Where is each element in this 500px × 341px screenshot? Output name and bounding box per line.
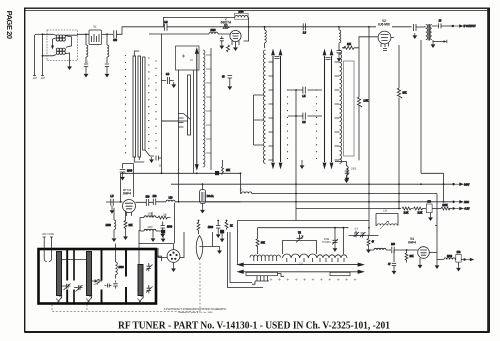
slider bar 2 (330, 272, 350, 275)
capacitor C1 (113, 30, 118, 42)
AGC box B1 (176, 46, 200, 70)
wafer bar S1c (143, 57, 145, 150)
grid coil L19 (370, 248, 391, 250)
svg-text:68: 68 (222, 77, 225, 79)
trimmer CT7 (354, 231, 360, 238)
svg-text:10K: 10K (129, 225, 134, 227)
wire bus continues (167, 17, 376, 41)
coil L15 feet (287, 258, 313, 262)
capacitor C25 (105, 284, 112, 288)
svg-text:10K: 10K (403, 93, 408, 95)
capacitor C8 at wafer bottom (156, 156, 161, 161)
svg-text:33K: 33K (261, 243, 266, 245)
coil L4 osc (339, 27, 341, 47)
svg-text:1000: 1000 (447, 256, 453, 258)
trimmer CT2 with ground (332, 237, 338, 246)
resistor R14 (405, 250, 414, 262)
resistor R12 33K (256, 239, 265, 254)
wafer contact dots col 1 (126, 56, 157, 160)
ground under C4 (337, 56, 342, 62)
transformer T1 winding top (56, 35, 65, 41)
capacitor C23 square with ground (161, 230, 166, 242)
capacitor C22 with ground (208, 221, 221, 233)
slug arrow 2b (330, 50, 333, 168)
wire x436 top link (435, 225, 437, 227)
coil L20 (444, 256, 455, 260)
socket X1 (167, 244, 180, 263)
svg-text:L18: L18 (383, 211, 388, 213)
choke L12 (140, 229, 161, 231)
svg-text:AMP: AMP (222, 26, 230, 30)
slider bar 1 (246, 272, 278, 275)
resistor R9 (156, 216, 171, 219)
resistor R11 at eye (197, 221, 200, 235)
center vertical x296 (295, 90, 297, 221)
svg-text:470: 470 (113, 40, 118, 42)
terminal +140V (453, 183, 470, 186)
wire V4 top (349, 235, 379, 237)
svg-text:100: 100 (391, 244, 396, 246)
ground under socket X1 (173, 262, 175, 266)
vertical line to AGC bus (161, 34, 163, 173)
grid coil L3 (162, 30, 230, 34)
ground arrow in T1 (51, 39, 54, 50)
tube V2 label (378, 19, 391, 26)
slug screw 2 (86, 296, 92, 303)
capacitor C16 470 box (426, 202, 441, 213)
wire T2 primary bottom long drop (420, 40, 422, 173)
coil L7 winding column (340, 50, 342, 163)
coil L8 with ground (335, 162, 348, 178)
coil form bar 1 (57, 252, 62, 296)
junction osc (338, 26, 340, 28)
coil L5 tap bus (206, 48, 211, 170)
coil L6 tap ticks (269, 62, 274, 160)
resistor R2 10K (342, 44, 359, 50)
capacitor C12 (303, 23, 307, 34)
svg-text:7H: 7H (298, 233, 301, 235)
svg-text:RF TUNER - PART No. V-14130-1: RF TUNER - PART No. V-14130-1 - USED IN … (118, 320, 390, 331)
wire V2 cathode drop (398, 45, 400, 88)
svg-text:3.3: 3.3 (302, 122, 306, 124)
junction dots buses (295, 183, 422, 228)
svg-text:47: 47 (388, 264, 391, 266)
capacitor C26 (113, 281, 117, 289)
svg-text:FINE: FINE (324, 239, 330, 241)
coil L2 plate choke (235, 11, 249, 19)
trimmer CT3 (62, 281, 71, 290)
coil L16 row (317, 255, 347, 258)
svg-text:6AF4: 6AF4 (123, 191, 131, 195)
resistor R7 2.2K (411, 207, 426, 214)
tube V2 pin stubs (381, 43, 389, 47)
coil L1b to ground leg (105, 34, 109, 71)
wire T1 connections (43, 34, 78, 64)
capacitor C20 at V3 grid (136, 196, 154, 206)
capacitor C2 in bus (164, 22, 168, 31)
capacitor C11 square (215, 171, 219, 175)
svg-text:100: 100 (146, 196, 151, 198)
svg-text:1000: 1000 (119, 267, 125, 269)
wire into box right (139, 230, 162, 265)
wire to output coil (437, 259, 444, 261)
svg-text:1000: 1000 (238, 11, 244, 13)
trimmer CT5 (146, 263, 153, 271)
svg-text:M1: M1 (93, 27, 97, 29)
contact dots col pair2 (316, 90, 318, 165)
resistor R5 15K (222, 160, 231, 174)
horizontal link y173 (121, 172, 241, 174)
tube V4 label (408, 237, 416, 244)
wire eye left feed (180, 232, 184, 258)
dashed stub 2 (86, 305, 88, 312)
svg-text:L9: L9 (240, 190, 243, 192)
coil form bar 3 (138, 265, 143, 296)
vertical link to A bus (120, 173, 122, 202)
svg-text:TUNING: TUNING (322, 242, 331, 244)
junction (343, 47, 345, 49)
vertical x437 drop (436, 194, 438, 264)
wafer bar S1b (138, 56, 141, 157)
partition wall 3 (125, 250, 127, 303)
wire bus C AGC (206, 201, 452, 203)
svg-text:PAGE 20: PAGE 20 (5, 11, 14, 39)
svg-text:10K: 10K (163, 215, 168, 217)
capacitor C28 with ground (388, 250, 396, 269)
resistor R4 10K in cathode line (397, 88, 407, 209)
coil L6 winding column (263, 50, 265, 163)
coil L9 bus drop (335, 162, 346, 170)
transformer T1 balun dashed box (47, 30, 78, 61)
wafer bar S1d (188, 75, 191, 135)
slug screw 1 (56, 296, 62, 303)
wire y116 with capacitor C14 (288, 113, 322, 124)
svg-text:L13: L13 (169, 198, 174, 200)
tube V4 envelope (418, 247, 430, 259)
svg-text:1000: 1000 (147, 227, 153, 229)
ground under T1 (67, 64, 72, 70)
svg-text:A PHOTOFACT STANDARD NOTATION: A PHOTOFACT STANDARD NOTATION SCHEMATIC (164, 307, 227, 311)
dashed alignment line (52, 262, 200, 312)
junction dots on y173 (161, 172, 163, 174)
wire V3 cathode drop (140, 212, 152, 231)
svg-text:140V: 140V (464, 184, 470, 186)
ground under T2 (432, 40, 434, 42)
trimmer CT1 (296, 233, 303, 243)
FINE TUNING label (322, 239, 331, 244)
wire y90 with capacitor C13 (288, 87, 322, 98)
svg-text:6AF4: 6AF4 (408, 240, 416, 244)
capacitor C4 (337, 47, 342, 56)
antenna terminal leads (33, 34, 44, 75)
fine tuning frame (283, 241, 317, 255)
shaft arrow 2 (238, 270, 364, 273)
svg-text:1000: 1000 (127, 171, 133, 173)
svg-text:1000: 1000 (167, 227, 173, 229)
svg-text:47: 47 (372, 242, 375, 244)
svg-text:6J6 MIX: 6J6 MIX (378, 22, 391, 26)
resistor R13 (367, 236, 375, 247)
junction dots T1 (42, 33, 44, 35)
svg-text:2.2K: 2.2K (404, 212, 409, 214)
slug arrow 1a (272, 50, 275, 168)
wafer bar S1a (133, 56, 136, 157)
svg-text:270: 270 (457, 252, 462, 254)
ground under R13 (366, 247, 371, 253)
svg-text:IF OUTPUT: IF OUTPUT (464, 26, 477, 28)
slider step (278, 274, 285, 277)
coil L1a to ground leg (84, 34, 88, 71)
ground for C17 (345, 175, 350, 181)
wire bus F fine tuning feed (258, 227, 349, 229)
wire T2 secondary bottom (433, 41, 444, 43)
svg-text:1000: 1000 (210, 30, 216, 32)
svg-text:10K: 10K (347, 44, 352, 46)
svg-text:100K: 100K (442, 205, 448, 207)
wire coil row left drop (230, 221, 252, 283)
wire bus F drop left (257, 228, 259, 239)
capacitor C19 with ground (161, 222, 173, 232)
ground at V1 cathode (219, 43, 224, 49)
slug arrow 1b (279, 50, 282, 168)
tube V3 label (123, 190, 132, 196)
tube V3 envelope (123, 200, 136, 217)
wire wafer bottoms (134, 150, 154, 162)
resistor R10 1K (225, 221, 233, 230)
wire eye to ground (217, 248, 222, 254)
coil L17 in box (116, 244, 125, 279)
wire trap to cap (102, 33, 114, 35)
vertical x369 osc feed (368, 27, 370, 236)
svg-text:1K: 1K (230, 226, 233, 228)
comb contacts (252, 276, 269, 285)
wire V3 left plate (106, 201, 123, 203)
svg-text:1000: 1000 (351, 169, 357, 171)
coil L16 feet (320, 258, 344, 262)
L connector left (228, 232, 264, 288)
svg-text:-1.5V: -1.5V (464, 209, 470, 211)
partition wall 1 (66, 250, 68, 303)
horizontal wire y121 (162, 120, 188, 122)
indicator E1 eye (196, 236, 218, 260)
coil L13 grid (166, 198, 241, 202)
ground at wafer bottom (149, 157, 154, 163)
resistor R15 V3 (124, 211, 133, 234)
terminal AGC (453, 201, 470, 204)
svg-text:1.5: 1.5 (303, 33, 307, 35)
wire from balun to trap (78, 33, 90, 36)
chassis box outline (39, 249, 157, 304)
wire grid V2 (359, 37, 378, 48)
slug screw 3 (138, 296, 144, 303)
svg-text:15K: 15K (226, 170, 231, 172)
ground at V1 pins (233, 45, 238, 51)
svg-text:UHF CONN: UHF CONN (42, 234, 54, 236)
trimmer CT6 (146, 285, 153, 293)
resistor R1 at V1 (226, 45, 229, 52)
resistor R6 2.2K (402, 207, 411, 214)
capacitor C7 output (439, 21, 442, 29)
wire to top bus (116, 27, 163, 35)
value labels pack (85, 27, 387, 266)
svg-text:3.3: 3.3 (164, 22, 168, 24)
contact dots col pair1 (287, 90, 289, 165)
loop coil L18 (376, 214, 398, 230)
ground under C29 (458, 262, 460, 265)
capacitor C6 bypass (414, 24, 424, 31)
wire wafer top to grid (134, 34, 161, 56)
ground mid pair (301, 160, 303, 163)
coil L14 feet (254, 258, 277, 262)
capacitor C9 with ground (162, 74, 174, 84)
ground for C9 (171, 82, 176, 88)
trap M1 box (89, 30, 102, 45)
wire top feedback line (164, 17, 236, 27)
coil L10 with ground (106, 208, 116, 236)
ground under V4 (419, 258, 421, 263)
wire x212 drop (212, 232, 214, 247)
wire bar1-bar2 link (62, 259, 87, 261)
junction (85, 33, 87, 35)
wire V4 plate (429, 252, 437, 254)
svg-text:1000: 1000 (106, 225, 112, 227)
capacitor C31 pair1 top (275, 57, 280, 59)
wire box drop (162, 70, 179, 202)
big coil L5 winding (203, 50, 205, 167)
UHF CONN leads (43, 237, 53, 262)
capacitor C30 plate bypass (120, 164, 134, 198)
ground under DS-1 (202, 204, 204, 208)
crystal DS-1 (200, 190, 214, 204)
transformer T1 winding bottom (56, 48, 65, 54)
coil L14 row small (250, 255, 280, 258)
wire fine tuning right drop (343, 228, 345, 254)
plus marks row (270, 278, 357, 281)
wire socket feed (139, 244, 174, 258)
shield rect (344, 61, 354, 156)
capacitor C15 pair2 top (326, 58, 331, 60)
partition wall 2 (101, 250, 103, 303)
coil form bar 2 (87, 252, 92, 296)
choke L11 (140, 216, 156, 218)
capacitor C21 (153, 196, 166, 205)
capacitor C3 at V1 cathode (220, 36, 224, 43)
svg-text:.5-3: .5-3 (354, 229, 359, 231)
capacitor C17 at bus top (345, 168, 350, 175)
partition wall 1b (73, 250, 75, 303)
IF OUTPUT terminal (441, 25, 476, 28)
capacitor C10 with ground (222, 76, 232, 85)
ground under C6 (412, 33, 417, 39)
trimmer CT8 (360, 232, 366, 238)
coil L7 tap ticks (335, 62, 340, 160)
junction (106, 33, 108, 35)
wire contacts drop (193, 70, 195, 173)
resistor R8 100K (441, 205, 452, 210)
tube V1 label (221, 20, 232, 31)
svg-text:3.3: 3.3 (166, 74, 170, 76)
svg-text:ANT: ANT (33, 77, 38, 80)
ground at choke L12 (152, 231, 154, 236)
vertical line x359 down (358, 48, 360, 97)
svg-text:1.5: 1.5 (302, 96, 306, 98)
trimmer CT4 (74, 285, 83, 292)
wire V2 plate to IF (391, 27, 412, 38)
capacitor C29 box (455, 252, 463, 262)
wire bus E (238, 220, 370, 222)
svg-text:AGC: AGC (464, 201, 469, 204)
capacitor C5 at V2 (383, 49, 387, 51)
capacitor C27 (391, 244, 418, 253)
capacitor C24 square with ground (220, 230, 225, 242)
terminal -1.5V (453, 207, 470, 210)
wire bus D (296, 208, 401, 210)
shaft arrow 1 (238, 263, 364, 266)
svg-text:1.5: 1.5 (110, 196, 114, 198)
tube V1 envelope (230, 30, 241, 41)
coil L6 top choke (265, 27, 267, 48)
wire DS-1 top to bus A (202, 184, 204, 189)
slug arrow 2a (323, 50, 326, 168)
terminal out (464, 258, 474, 260)
diode CR1 (92, 279, 102, 285)
resistor R3 1.5K (357, 97, 368, 160)
svg-text:ANT: ANT (41, 77, 46, 80)
svg-text:DS-1A: DS-1A (207, 195, 214, 198)
big coil L5 arrow (slug) (195, 49, 198, 170)
svg-text:1000: 1000 (147, 214, 153, 216)
IF transformer T2 (424, 24, 438, 41)
svg-text:2.2K: 2.2K (418, 212, 423, 214)
svg-text:1000: 1000 (208, 227, 214, 229)
svg-text:1.5K: 1.5K (364, 101, 369, 103)
capacitor C18 with ground (110, 196, 114, 208)
svg-text:10K: 10K (410, 256, 415, 258)
tube V2 envelope (378, 31, 391, 44)
coil L15 row large (283, 254, 317, 258)
svg-text:100: 100 (153, 196, 158, 198)
wire bus A +140V (171, 183, 452, 185)
vertical x421 to bend (421, 173, 444, 202)
switch contacts (178, 114, 191, 128)
ground under C16 (430, 213, 432, 215)
wire bus B (241, 173, 438, 193)
tube V1 pin stubs (232, 41, 239, 46)
svg-text:L1: L1 (85, 62, 88, 64)
svg-text:10: 10 (439, 21, 442, 23)
ground for C10 (227, 84, 232, 90)
tap wires pair1 (254, 95, 264, 145)
